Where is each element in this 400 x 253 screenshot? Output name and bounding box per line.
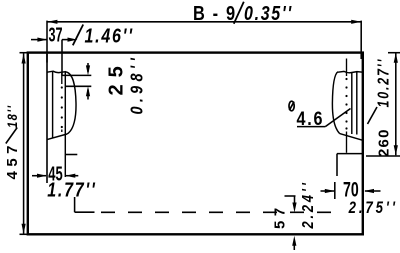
leader line to slot [325,109,350,127]
label 25 (rotated) [106,59,128,95]
slash of 260/10.27 [368,107,378,124]
label 2.24'' (rotated) [300,180,318,229]
dimension 457 line [22,54,26,234]
slash of 457/18 [6,128,17,144]
left bracket slot centerline dots [61,86,63,128]
svg-text:18'': 18'' [5,104,20,128]
right bracket slanted bottom line [340,134,363,141]
dimension 25 extension tick lower [65,85,91,87]
dimension 25 extension tick upper [62,74,91,76]
label 45 [48,163,62,186]
right bracket left curve [332,72,339,134]
label 4.6 [297,108,325,130]
svg-text:1.77'': 1.77'' [47,179,96,201]
left bracket slot centerline stub [61,72,63,85]
left bracket inner line [52,72,54,138]
label 260 (rotated) [376,128,393,157]
right bracket bottom flange line [337,153,363,155]
hidden feature corner vertical line [74,197,76,212]
dimension 70 right arrow [364,189,381,193]
dimension 45 tick [65,154,77,156]
label 457 (rotated) [4,141,21,180]
right bracket slot edge line [351,72,353,134]
label 57 (rotated) [272,203,289,229]
dimension 457 bottom tick [20,233,28,235]
left bracket right curve [66,72,76,134]
svg-text:10.27'': 10.27'' [374,58,392,108]
label B - 9 [193,1,237,24]
svg-text:0.98'': 0.98'' [127,54,147,115]
left bracket slot edge line down to dimension 45 [64,72,66,177]
dimension 57 top tick [285,195,296,197]
svg-text:B - 9: B - 9 [193,1,237,24]
main outline [28,53,363,235]
hidden feature solid lead-in [75,211,95,213]
dimension 25 upper arrow [86,63,90,75]
svg-text:37: 37 [49,24,63,47]
dimension 25 lower arrow [86,86,90,99]
label 0.98'' (rotated) [127,54,147,115]
dimension 260 line [394,53,398,156]
slash of B-9/0.35 [234,2,244,24]
right bracket top wavy line [338,71,363,72]
svg-text:2.24'': 2.24'' [300,180,318,229]
label 0.35'' [244,2,293,24]
right bracket centerline lower solid to flange [346,132,348,153]
svg-text:0.35'': 0.35'' [244,2,293,24]
dimension 57 upper arrow (pointing down) [292,196,296,213]
leader underline for 4.6 [297,126,325,128]
left bracket top wavy line [47,71,66,72]
dimension 45 right arrow [65,174,78,178]
svg-text:457: 457 [4,141,21,180]
dimension B-9 line [47,20,361,24]
label 37 [49,24,63,47]
dimension 37 right arrow [62,38,78,42]
dimension 70 left arrow [321,189,335,193]
label 10.27'' (rotated) [374,58,392,108]
label 1.46'' [85,25,134,47]
label 2.75'' [348,198,398,217]
dimension B-9 left extension line [46,21,48,63]
label 1.77'' [47,179,96,201]
svg-text:260: 260 [376,128,393,157]
label 18'' (rotated) [5,104,20,128]
hidden feature dashed line [101,211,339,213]
left bracket slanted bottom line [47,134,67,140]
right bracket slot centerline stub [346,59,348,77]
label 70 [343,178,359,202]
dimension 45 left arrow [32,174,47,178]
right bracket inner line [356,72,358,135]
dimension 70 extension line [336,154,338,176]
label diameter symbol [289,101,294,111]
dimension 260 bottom tick [366,155,400,157]
svg-text:2.75'': 2.75'' [348,198,398,217]
svg-text:57: 57 [272,203,289,229]
dimension 37 extension line down to bracket [61,40,63,76]
left bracket centerline lower stub [61,130,63,133]
left bracket outer edge [46,54,48,183]
dimension 260 top tick [388,52,400,54]
slash of 37/1.46 [73,25,83,46]
dimension 57 lower arrow (pointing up) [292,236,296,250]
dimension B-9 right extension line [360,21,362,59]
svg-text:1.46'': 1.46'' [85,25,134,47]
dimension 457 top tick [20,52,28,54]
right bracket slot centerline dots [345,78,347,130]
dimension 37 left arrow [31,38,47,42]
svg-text:25: 25 [106,59,128,95]
